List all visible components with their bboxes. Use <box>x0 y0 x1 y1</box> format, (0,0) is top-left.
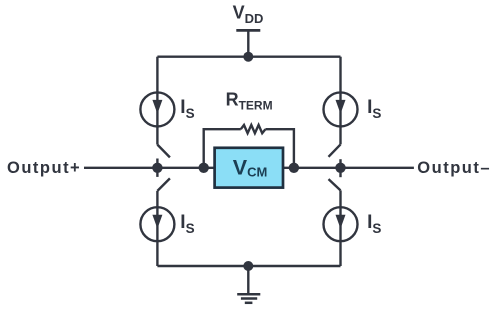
current source IS bottom-left <box>140 207 174 241</box>
switch arm right top <box>329 144 341 156</box>
wire right branch bottom <box>339 241 341 266</box>
node Output+ junction <box>152 163 162 173</box>
node RTERM left junction <box>199 163 209 173</box>
node ground junction <box>243 261 253 271</box>
ground bar 1 <box>237 293 260 296</box>
wire right branch upper <box>339 57 341 93</box>
wire right branch lower <box>339 190 341 207</box>
wire left node stubs <box>156 159 158 177</box>
wire RTERM loop right <box>265 129 294 168</box>
arrow of IS top-left <box>152 100 162 114</box>
svg-text:IS: IS <box>180 97 194 121</box>
current source IS top-right <box>324 92 358 126</box>
svg-text:IS: IS <box>367 212 381 236</box>
ground bar 2 <box>241 297 257 300</box>
svg-text:RTERM: RTERM <box>226 89 273 112</box>
svg-text:IS: IS <box>180 212 194 236</box>
switch arm left top <box>157 145 170 158</box>
node Output- junction <box>335 163 345 173</box>
svg-text:VDD: VDD <box>233 3 264 26</box>
svg-text:IS: IS <box>367 97 381 121</box>
wire right node stubs <box>339 159 341 177</box>
wire top rail <box>157 56 340 58</box>
wire right branch mid <box>339 126 341 144</box>
wire VDD drop <box>247 30 249 56</box>
wire left branch lower <box>156 191 158 207</box>
arrow of IS bottom-left <box>152 215 162 229</box>
wire ground stem <box>247 266 249 293</box>
VDD power bar <box>236 29 260 32</box>
node RTERM right junction <box>289 163 299 173</box>
wire left branch upper <box>156 57 158 93</box>
wire left branch mid <box>156 126 158 144</box>
switch arm right bottom <box>329 179 341 190</box>
arrow of IS top-right <box>336 100 346 114</box>
wire RTERM loop left <box>204 129 241 168</box>
ground bar 3 <box>245 302 253 305</box>
wire Output- lead <box>283 167 414 169</box>
wire bottom rail <box>157 265 340 267</box>
svg-text:Output+: Output+ <box>7 159 81 177</box>
wire left branch bottom <box>156 241 158 266</box>
wire Output+ lead <box>84 167 215 169</box>
arrow of IS bottom-right <box>336 215 346 229</box>
switch arm left bottom <box>157 178 170 191</box>
VCM box <box>215 148 283 188</box>
node VDD junction <box>243 52 253 62</box>
current source IS top-left <box>140 92 174 126</box>
current source IS bottom-right <box>324 207 358 241</box>
svg-text:Output–: Output– <box>417 159 491 177</box>
resistor RTERM zigzag <box>241 125 266 133</box>
